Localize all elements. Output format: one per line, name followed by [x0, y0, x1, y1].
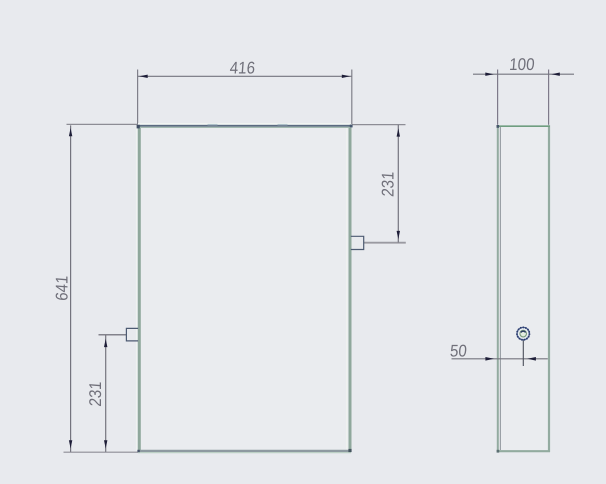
dimension 231 lower-left bottom arrow: [104, 440, 107, 448]
screw head dark arc: [521, 331, 526, 332]
dimension 100 right arrow: [551, 73, 560, 76]
dimension 100 left arrow: [485, 73, 494, 76]
screw outer thread circle: [517, 327, 529, 339]
front view top edge highlight: [138, 123, 351, 125]
svg-text:416: 416: [229, 59, 256, 78]
front view right edge: [349, 125, 352, 452]
front view top notch B: [278, 124, 288, 125]
svg-text:641: 641: [53, 275, 72, 302]
screw thread knurl: [517, 327, 529, 339]
dimension 50 left arrow: [485, 357, 494, 361]
side view bottom edge: [497, 450, 550, 452]
dimension 641 bottom arrow: [69, 440, 72, 448]
dimension 231 upper-right top arrow: [397, 128, 400, 136]
side view panel fill: [498, 126, 549, 451]
dimension 416 right extension line: [351, 70, 353, 125]
dimension 100 line: [473, 73, 574, 75]
front view top notch A: [208, 124, 218, 125]
front view bottom-right corner joint: [348, 449, 351, 452]
dimension 231 upper-right top extension line: [352, 124, 406, 126]
screw centerline: [522, 338, 524, 366]
dimension 50 line: [452, 358, 548, 360]
dimension 231 upper-right line: [397, 125, 399, 243]
right tab connector: [351, 236, 364, 249]
front view panel fill: [139, 126, 350, 451]
dimension 641 top arrow: [69, 128, 72, 136]
front view top edge teal underside: [138, 126, 351, 128]
front view bottom edge: [138, 450, 351, 452]
dimension 641 line: [70, 125, 72, 452]
side view bottom-left corner joint: [497, 450, 500, 453]
svg-text:231: 231: [379, 171, 398, 198]
front view top-left corner joint: [137, 125, 140, 129]
dimension 231 lower-left extension line: [99, 334, 127, 336]
dimension 100 left extension line: [497, 70, 499, 125]
front view left edge outer highlight: [136, 126, 138, 451]
dimension 416 left extension line: [137, 70, 139, 125]
dimension 416 left arrow: [139, 75, 148, 78]
dimension 231 upper-right bottom arrow: [397, 231, 400, 239]
front view bottom edge teal shadow: [138, 452, 351, 454]
dimension 641 bottom extension line: [64, 451, 140, 453]
svg-text:100: 100: [509, 55, 536, 74]
dimension 231 upper-right bottom extension line: [364, 242, 406, 244]
front view left edge: [138, 125, 141, 452]
dimension 231 lower-left line: [105, 335, 107, 452]
svg-text:50: 50: [449, 342, 467, 361]
dimension 641 top extension line: [67, 123, 139, 125]
front view top edge: [138, 125, 351, 127]
front view bottom-left corner joint: [137, 450, 139, 452]
dimension 231 lower-left top arrow: [104, 339, 107, 347]
front view right edge inner highlight: [346, 127, 348, 450]
side view top-left corner joint: [497, 125, 500, 128]
dimension 100 right extension line: [548, 70, 550, 125]
svg-text:231: 231: [86, 381, 105, 408]
front view top-right corner joint: [350, 125, 353, 128]
screw inner circle: [520, 330, 527, 337]
side view left outer edge: [497, 125, 499, 452]
side view top edge: [497, 125, 550, 127]
dimension 416 right arrow: [342, 75, 351, 78]
left tab connector: [126, 328, 138, 341]
dimension 416 line: [138, 75, 352, 77]
side view left inner seam line: [499, 127, 501, 450]
dimension 50 right arrow: [527, 357, 536, 361]
side view right edge: [548, 125, 550, 452]
